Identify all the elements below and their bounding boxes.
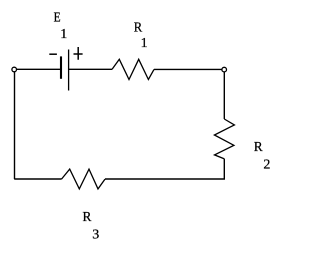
battery E1 negative plate [60,56,62,78]
wire R1 to right node [154,68,222,70]
battery plus sign [74,47,83,60]
resistor R2 zigzag [214,119,234,159]
bottom wire right segment [105,178,225,180]
svg-text:3: 3 [92,228,99,243]
svg-text:R: R [134,19,143,35]
node left terminal [12,67,17,72]
svg-text:1: 1 [60,27,67,42]
resistor R1 zigzag [112,59,154,79]
svg-text:E: E [54,10,61,25]
bottom wire left segment [14,178,61,180]
resistor R3 zigzag [62,169,106,189]
battery E1 positive plate [68,50,70,91]
svg-text:1: 1 [141,36,148,51]
node right terminal [222,67,227,72]
wire top-left (node to battery) [17,68,60,70]
wire R2 to bottom [223,159,225,179]
wire battery to R1 [69,68,112,70]
svg-text:R: R [83,209,93,224]
wire right node down to R2 [223,72,225,119]
wire left side up [14,72,16,179]
svg-text:2: 2 [263,158,270,173]
svg-text:R: R [254,139,264,154]
battery minus sign [49,53,57,55]
